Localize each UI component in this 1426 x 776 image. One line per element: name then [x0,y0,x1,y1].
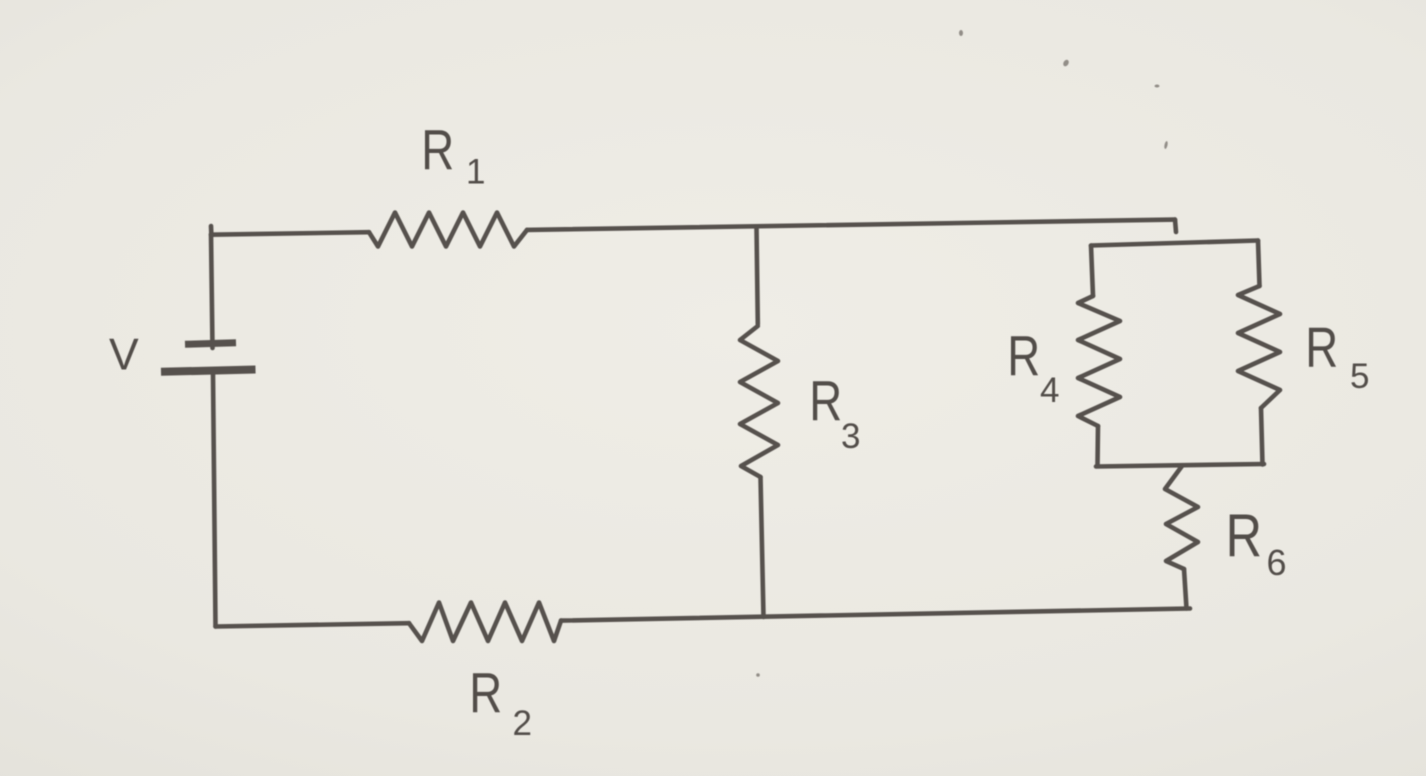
svg-text:6: 6 [1267,542,1287,583]
svg-text:R: R [809,368,842,432]
resistor R4 zigzag [1078,296,1120,426]
resistor R3 zigzag [740,326,778,477]
wire: top rail left segment [211,232,369,235]
wire: left vertical from top corner to battery top plate [211,234,213,348]
wire: top rail right segment [527,220,1175,230]
wire: R3 top lead from top rail [757,227,758,324]
wire: R6 bottom lead to bottom rail [1184,569,1187,609]
speck top right 1 [959,30,963,36]
svg-text:1: 1 [466,153,485,192]
svg-text:2: 2 [513,704,532,743]
resistor R6 zigzag [1165,466,1198,569]
speck top right 3 [1155,85,1160,88]
svg-text:5: 5 [1350,357,1369,396]
svg-text:R: R [1305,315,1338,379]
wire: top-left corner stub [209,226,214,236]
wire: parallel box top rail [1091,241,1258,246]
speck top right 2 [1062,59,1070,68]
wire: R5 bottom lead [1261,408,1263,465]
wire: R3 bottom lead to bottom rail [761,477,764,617]
resistor R2 zigzag [409,603,561,642]
wire: bottom rail right segment [561,609,1190,621]
wire: R4 top lead [1091,246,1093,297]
svg-text:4: 4 [1040,371,1059,410]
svg-text:3: 3 [841,417,860,456]
resistor R1 zigzag [369,213,527,247]
svg-text:R: R [469,660,502,724]
wire: bottom rail left segment [216,623,410,626]
battery V plates [161,343,256,372]
wire: R4 bottom lead [1095,426,1100,465]
svg-text:R: R [1226,502,1262,569]
svg-text:V: V [109,331,139,380]
svg-text:R: R [421,117,454,181]
speck top right 4 [1164,141,1169,149]
wire: R5 top lead [1258,241,1260,287]
wire: junction tick at right end of top rail [1175,220,1176,232]
svg-text:R: R [1007,323,1040,387]
wire: battery bottom to bottom-left corner [213,375,216,627]
resistor R5 zigzag [1238,286,1280,408]
wire: parallel box bottom rail [1096,464,1264,467]
speck bottom middle dot [756,673,760,677]
